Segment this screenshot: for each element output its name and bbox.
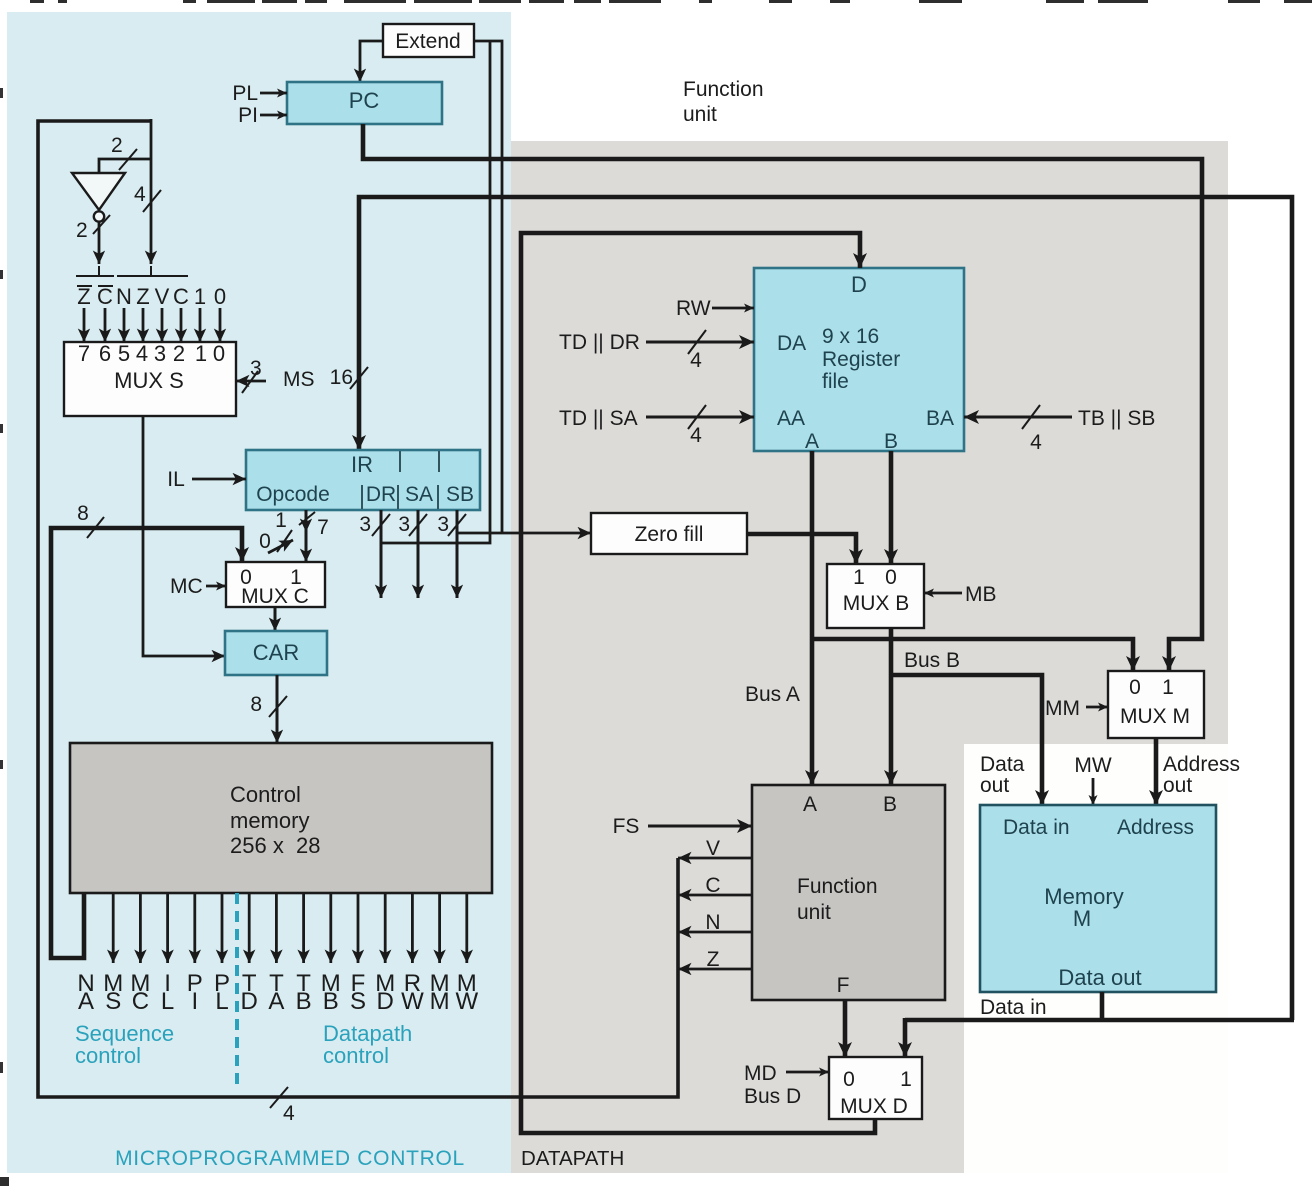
- wire: Zero fill output to MUX B input 1: [747, 534, 856, 564]
- svg-text:2: 2: [173, 341, 185, 366]
- svg-text:C: C: [132, 988, 149, 1015]
- svg-text:MS: MS: [283, 368, 315, 391]
- svg-text:B: B: [323, 988, 339, 1015]
- svg-text:N: N: [705, 911, 720, 934]
- wire: inverter output 2-bit with slash label 2: [76, 215, 110, 264]
- wire: C flag output: [678, 874, 752, 897]
- block Extend: [383, 24, 474, 57]
- divider: dashed line between sequence control and datapath control fields: [235, 893, 239, 1089]
- wire: V flag output: [678, 837, 752, 860]
- svg-text:SA: SA: [405, 483, 433, 506]
- svg-text:0: 0: [214, 284, 226, 309]
- svg-text:BA: BA: [926, 407, 954, 430]
- net label MD: [375, 970, 395, 1015]
- svg-text:D: D: [241, 988, 258, 1015]
- svg-text:DA: DA: [777, 332, 806, 355]
- svg-text:unit: unit: [797, 901, 831, 924]
- svg-text:N: N: [116, 284, 132, 309]
- svg-text:Bus B: Bus B: [904, 649, 960, 672]
- svg-text:4: 4: [690, 349, 702, 372]
- svg-text:3: 3: [437, 513, 449, 536]
- svg-text:2: 2: [76, 219, 88, 242]
- svg-text:Function: Function: [683, 78, 764, 101]
- svg-text:M: M: [430, 988, 450, 1015]
- wires: control word output arrows (MS MC IL PI PL TD TA TB MB FS MD RW MM MW): [113, 893, 467, 963]
- svg-text:W: W: [401, 988, 424, 1015]
- net label RW: [401, 970, 424, 1015]
- wire: MUX M output to memory address with label Address out: [1156, 738, 1240, 805]
- svg-text:TD || SA: TD || SA: [559, 407, 638, 430]
- net label TB: [296, 970, 312, 1015]
- svg-text:B: B: [884, 430, 898, 453]
- svg-text:4: 4: [136, 341, 148, 366]
- wire: F result to MUX D input 0: [843, 1000, 848, 1057]
- label MICROPROGRAMMED CONTROL: [115, 1147, 465, 1170]
- svg-text:TB || SB: TB || SB: [1078, 407, 1155, 430]
- svg-text:A: A: [805, 430, 819, 453]
- net label Data out (into memory data in): [980, 753, 1025, 797]
- svg-text:out: out: [1163, 774, 1192, 797]
- svg-text:Address: Address: [1163, 753, 1240, 776]
- svg-text:Function: Function: [797, 875, 878, 898]
- svg-text:Data in: Data in: [1003, 816, 1070, 839]
- wire: SB field to Zero fill: [457, 532, 591, 535]
- net label MM: [430, 970, 450, 1015]
- svg-text:V: V: [155, 284, 170, 309]
- mux MUX S: [64, 341, 236, 416]
- wire: TB||SB to BA with slash label 4: [964, 405, 1155, 454]
- wire: MS select input with slash label 3: [236, 357, 315, 393]
- wire: SB field output with slash label 3: [437, 510, 466, 598]
- svg-text:Bus A: Bus A: [745, 683, 800, 706]
- svg-text:A: A: [803, 793, 817, 816]
- wire: FS function select input: [613, 815, 752, 838]
- svg-text:PC: PC: [349, 88, 380, 113]
- wire: PI control input: [238, 104, 287, 127]
- svg-text:MUX C: MUX C: [241, 585, 309, 608]
- wire: MD select input with net label Bus D: [744, 1062, 829, 1108]
- svg-text:Opcode: Opcode: [256, 483, 330, 506]
- svg-text:1: 1: [194, 284, 206, 309]
- svg-text:S: S: [105, 988, 121, 1015]
- mux MUX C: [226, 562, 325, 608]
- svg-text:IL: IL: [167, 468, 185, 491]
- wire: RW control input: [676, 297, 754, 320]
- svg-text:Z: Z: [77, 284, 90, 309]
- svg-text:B: B: [296, 988, 312, 1015]
- svg-text:MUX S: MUX S: [114, 368, 184, 393]
- wire: MC select input: [170, 575, 226, 598]
- svg-text:Control: Control: [230, 782, 301, 807]
- net label PI: [187, 970, 203, 1015]
- wire: PL control input: [232, 82, 287, 105]
- svg-text:C: C: [705, 874, 720, 897]
- svg-text:unit: unit: [683, 103, 717, 126]
- svg-text:FS: FS: [613, 815, 640, 838]
- svg-text:MM: MM: [1045, 697, 1080, 720]
- wire: NA next-address 8-bit feedback to MUX C input 0 with slash label 8: [51, 502, 242, 958]
- wire: opcode field to MUX C input 1 with labels 1 7 0: [259, 509, 329, 562]
- svg-text:16: 16: [330, 366, 353, 389]
- svg-text:C: C: [97, 284, 113, 309]
- block Zero fill: [591, 513, 747, 554]
- svg-text:S: S: [350, 988, 366, 1015]
- memory M: [980, 805, 1216, 992]
- inverter (2-bit complement): [72, 173, 125, 222]
- svg-text:file: file: [822, 370, 849, 393]
- svg-text:D: D: [377, 988, 394, 1015]
- svg-text:AA: AA: [777, 407, 805, 430]
- wire: PC output bus to MUX M input 1: [363, 124, 1202, 671]
- svg-text:Z: Z: [707, 948, 720, 971]
- svg-text:L: L: [215, 988, 228, 1015]
- svg-text:Register: Register: [822, 348, 900, 371]
- label Sequence control: [75, 1021, 174, 1068]
- svg-text:0: 0: [885, 566, 897, 589]
- wire: MW write control into memory: [1074, 754, 1111, 805]
- svg-text:control: control: [323, 1043, 389, 1068]
- svg-text:out: out: [980, 774, 1009, 797]
- svg-text:M: M: [1073, 906, 1091, 931]
- label DATAPATH: [521, 1147, 624, 1170]
- wires: eight status inputs into MUX S: [84, 308, 220, 342]
- svg-text:DATAPATH: DATAPATH: [521, 1147, 624, 1170]
- svg-text:0: 0: [1129, 676, 1141, 699]
- svg-text:6: 6: [99, 341, 111, 366]
- mux MUX D: [829, 1057, 922, 1119]
- wire: TD||DR to DA with slash label 4: [559, 330, 754, 372]
- svg-text:MC: MC: [170, 575, 203, 598]
- svg-text:Address: Address: [1117, 816, 1194, 839]
- svg-text:2: 2: [111, 134, 123, 157]
- svg-text:TD || DR: TD || DR: [559, 331, 640, 354]
- svg-text:A: A: [268, 988, 284, 1015]
- wire: Extend input bus from instruction fields (outer): [474, 41, 502, 533]
- svg-text:9 x 16: 9 x 16: [822, 325, 879, 348]
- net label FS: [350, 970, 366, 1015]
- mux MUX M: [1108, 671, 1204, 738]
- svg-text:I: I: [191, 988, 198, 1015]
- wire: Bus A from register file A output to function unit: [745, 451, 812, 785]
- svg-text:Data out: Data out: [1058, 965, 1141, 990]
- wire: TD||SA to AA with slash label 4: [559, 405, 754, 447]
- svg-text:IR: IR: [351, 452, 373, 477]
- wire: MB select input: [924, 583, 997, 606]
- svg-text:8: 8: [250, 693, 262, 716]
- svg-text:Extend: Extend: [395, 30, 460, 53]
- net label TD: [241, 970, 258, 1015]
- svg-text:C: C: [173, 284, 189, 309]
- wire: Bus D into register file D input: [521, 233, 875, 1133]
- wire: 2-bit tap into inverter with slash label 2: [99, 134, 151, 173]
- svg-text:0: 0: [259, 530, 271, 553]
- net label MC: [130, 970, 150, 1015]
- wire: Z flag output: [678, 948, 752, 971]
- net label MS: [103, 970, 123, 1015]
- register IR with fields Opcode DR SA SB: [246, 450, 480, 510]
- svg-text:Bus D: Bus D: [744, 1085, 801, 1108]
- svg-text:7: 7: [317, 516, 329, 539]
- svg-text:1: 1: [275, 509, 287, 532]
- svg-text:V: V: [706, 837, 720, 860]
- register PC: [287, 82, 442, 124]
- net label MB: [321, 970, 341, 1015]
- svg-text:5: 5: [118, 341, 130, 366]
- svg-text:control: control: [75, 1043, 141, 1068]
- svg-text:MUX M: MUX M: [1120, 705, 1190, 728]
- wire: MUX C output to CAR: [274, 607, 277, 631]
- wire: SA field output with slash label 3: [398, 510, 427, 598]
- svg-text:7: 7: [78, 341, 90, 366]
- wire: 4-bit status flag feedback bus (function unit flags to status mux area): [38, 121, 678, 1125]
- wire: IL control input to IR: [167, 468, 246, 491]
- wire: DR field output with slash label 3: [359, 510, 390, 598]
- wire: memory data out bus to IR with slash label 16: [330, 197, 1292, 1020]
- net label PL: [214, 970, 230, 1015]
- svg-text:3: 3: [250, 357, 262, 380]
- svg-text:F: F: [837, 974, 850, 997]
- net label NA: [77, 970, 94, 1015]
- svg-text:3: 3: [359, 513, 371, 536]
- wire: N flag output: [678, 911, 752, 934]
- node: status bit brackets and labels Z C N Z V C 1 0: [76, 266, 226, 309]
- wire: 4-bit branch to condition select with slash label 4: [134, 119, 161, 264]
- svg-text:MICROPROGRAMMED CONTROL: MICROPROGRAMMED CONTROL: [115, 1147, 465, 1170]
- svg-text:3: 3: [154, 341, 166, 366]
- svg-text:B: B: [883, 793, 897, 816]
- wire: MM select input: [1045, 697, 1108, 720]
- register CAR: [225, 631, 327, 675]
- svg-text:L: L: [161, 988, 174, 1015]
- register file 9 x 16: [754, 268, 964, 453]
- wire: MUX B output to function unit B input: [889, 628, 894, 785]
- svg-text:PI: PI: [238, 104, 258, 127]
- svg-text:8: 8: [77, 502, 89, 525]
- wire: MUX S output to CAR: [143, 416, 225, 656]
- svg-text:3: 3: [398, 513, 410, 536]
- mux MUX B: [827, 564, 924, 628]
- label Datapath control: [323, 1021, 412, 1068]
- svg-text:4: 4: [1030, 431, 1042, 454]
- svg-text:Data in: Data in: [980, 996, 1047, 1019]
- wire: CAR output to control memory with slash label 8: [250, 675, 287, 743]
- svg-text:W: W: [455, 988, 478, 1015]
- svg-text:MUX D: MUX D: [840, 1095, 908, 1118]
- svg-text:0: 0: [213, 341, 225, 366]
- svg-text:MB: MB: [965, 583, 997, 606]
- control memory 256 x 28: [70, 743, 492, 893]
- svg-text:MUX B: MUX B: [843, 592, 910, 615]
- function unit: [752, 785, 945, 1000]
- svg-text:Zero fill: Zero fill: [635, 523, 704, 546]
- svg-text:RW: RW: [676, 297, 711, 320]
- svg-text:Data: Data: [980, 753, 1025, 776]
- svg-text:256 x 28: 256 x 28: [230, 833, 321, 858]
- wire: register file B output to MUX B input 0: [889, 451, 894, 564]
- svg-text:1: 1: [1162, 676, 1174, 699]
- svg-text:MW: MW: [1074, 754, 1111, 777]
- svg-text:0: 0: [843, 1068, 855, 1091]
- svg-text:PL: PL: [232, 82, 258, 105]
- svg-text:1: 1: [195, 341, 207, 366]
- net label IL: [161, 970, 174, 1015]
- svg-text:4: 4: [690, 424, 702, 447]
- svg-text:4: 4: [283, 1102, 295, 1125]
- svg-text:D: D: [851, 272, 867, 297]
- svg-text:SB: SB: [446, 483, 474, 506]
- svg-text:1: 1: [853, 566, 865, 589]
- net label MW: [455, 970, 478, 1015]
- svg-text:Z: Z: [136, 284, 149, 309]
- svg-text:4: 4: [134, 183, 146, 206]
- svg-text:A: A: [78, 988, 94, 1015]
- svg-text:CAR: CAR: [253, 640, 299, 665]
- wire: Extend output to PC: [360, 41, 383, 82]
- wire: Bus B branch to memory data in: [891, 649, 1042, 805]
- wire: memory data out bus with label Data in: [905, 992, 1294, 1057]
- svg-text:memory: memory: [230, 808, 309, 833]
- wire: Extend input bus from instruction fields (inner): [381, 40, 490, 543]
- label Function unit (top): [683, 78, 764, 126]
- svg-text:DR: DR: [366, 483, 396, 506]
- svg-text:MD: MD: [744, 1062, 777, 1085]
- svg-text:1: 1: [900, 1068, 912, 1091]
- net label TA: [268, 970, 284, 1015]
- wire: Bus A branch to MUX M input 0: [812, 639, 1133, 671]
